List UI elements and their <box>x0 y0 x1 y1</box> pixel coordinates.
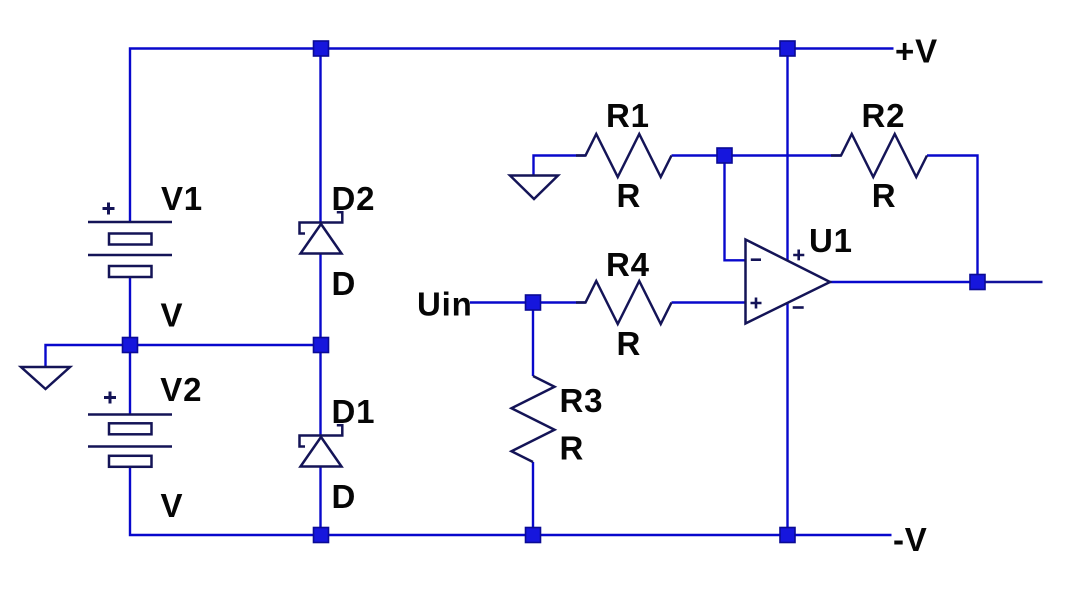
svg-text:Uin: Uin <box>417 286 473 323</box>
svg-text:V: V <box>161 487 184 524</box>
svg-text:R: R <box>617 177 642 214</box>
svg-text:-V: -V <box>893 521 928 558</box>
svg-text:R: R <box>617 325 642 362</box>
svg-text:R: R <box>872 177 897 214</box>
svg-text:R1: R1 <box>606 97 650 134</box>
svg-text:R2: R2 <box>862 97 906 134</box>
svg-text:R4: R4 <box>606 246 650 283</box>
svg-text:U1: U1 <box>809 222 853 259</box>
svg-text:D2: D2 <box>332 180 376 217</box>
svg-text:R3: R3 <box>560 382 604 419</box>
svg-text:V: V <box>161 297 184 334</box>
svg-text:D: D <box>332 265 357 302</box>
svg-text:+V: +V <box>895 33 938 70</box>
svg-text:V1: V1 <box>161 180 203 217</box>
svg-text:V2: V2 <box>160 371 202 408</box>
svg-text:D1: D1 <box>332 393 376 430</box>
svg-text:R: R <box>560 430 585 467</box>
svg-text:D: D <box>332 478 357 515</box>
